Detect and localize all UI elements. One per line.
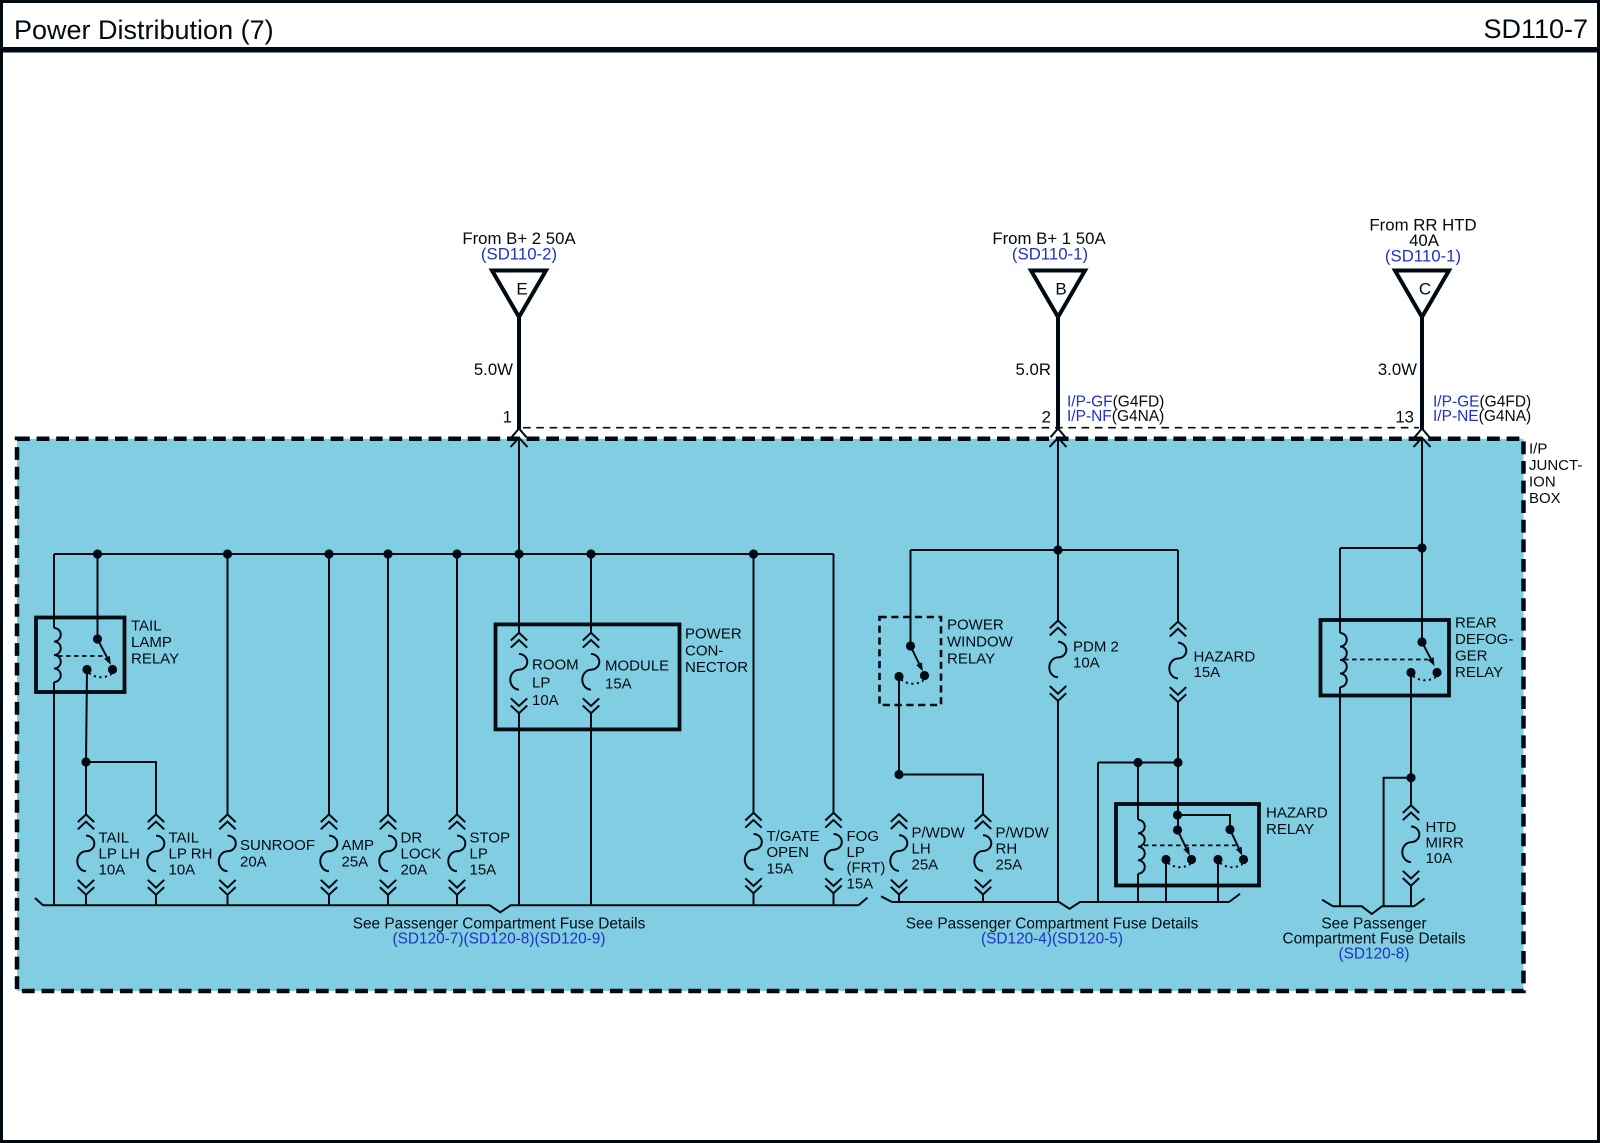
svg-text:(SD110-1): (SD110-1) <box>1012 245 1088 264</box>
svg-text:10A: 10A <box>99 862 126 879</box>
fuse TAIL LP RH 10A <box>147 814 164 894</box>
svg-text:TAIL: TAIL <box>169 830 200 847</box>
svg-text:15A: 15A <box>1194 664 1221 681</box>
wire DR LOCK drop <box>387 554 389 814</box>
svg-text:15A: 15A <box>605 675 632 692</box>
wire FOG LP to bus <box>833 893 835 905</box>
label POWER CONNECTOR <box>685 626 748 677</box>
connector pin symbol E/1 <box>511 429 528 448</box>
wire ROOM LP to bus <box>518 713 520 905</box>
value label AMP 25A <box>342 837 375 871</box>
wire hazard sw2 contact to bus <box>1217 860 1219 903</box>
tail lamp relay mechanical link <box>58 655 104 657</box>
wire HAZARD fuse drop <box>1177 550 1179 622</box>
svg-text:SUNROOF: SUNROOF <box>240 837 315 854</box>
wire right bus end tick R <box>1414 899 1425 907</box>
svg-text:LP: LP <box>470 846 488 863</box>
svg-text:LP: LP <box>532 674 550 691</box>
relay label TAIL LAMP RELAY <box>131 618 179 668</box>
svg-text:LAMP: LAMP <box>131 634 172 651</box>
svg-text:RELAY: RELAY <box>131 651 179 668</box>
fuse PDM 2 10A <box>1049 621 1066 701</box>
svg-text:20A: 20A <box>240 854 267 871</box>
svg-text:I/P: I/P <box>1529 441 1547 458</box>
svg-text:MIRR: MIRR <box>1426 835 1464 852</box>
fuse HTD MIRR 10A <box>1402 805 1419 885</box>
svg-text:(SD120-8): (SD120-8) <box>1339 946 1410 963</box>
wire mid bottom bus <box>892 902 1229 909</box>
wire DR LOCK to bus <box>387 895 389 906</box>
wire ROOM LP drop <box>518 554 520 633</box>
svg-text:ION: ION <box>1529 474 1556 491</box>
svg-text:DR: DR <box>401 830 423 847</box>
rear defogger relay coil <box>1340 633 1347 687</box>
wire mid top bus <box>911 549 1179 551</box>
connector box POWER CONNECTOR <box>496 624 680 729</box>
wire HTD MIRR to bus <box>1410 886 1412 907</box>
svg-text:OPEN: OPEN <box>767 844 810 861</box>
svg-text:PDM 2: PDM 2 <box>1073 639 1119 656</box>
svg-text:RELAY: RELAY <box>1266 821 1314 838</box>
wire P/WDW LH to bus <box>898 895 900 903</box>
svg-text:I/P-NE(G4NA): I/P-NE(G4NA) <box>1433 408 1531 425</box>
svg-text:REAR: REAR <box>1455 615 1497 632</box>
svg-text:RELAY: RELAY <box>1455 664 1503 681</box>
svg-text:DEFOG-: DEFOG- <box>1455 631 1513 648</box>
wire hazard sw1 feed <box>1177 763 1179 831</box>
relay box HAZARD RELAY <box>1116 804 1259 886</box>
svg-text:15A: 15A <box>847 876 874 893</box>
fuse TAIL LP LH 10A <box>77 814 94 894</box>
value label STOP LP 15A <box>470 830 511 879</box>
wire STOP LP drop <box>456 554 458 814</box>
connector pin symbol B/2 <box>1050 429 1067 448</box>
value label HAZARD 15A <box>1194 649 1256 682</box>
wire tail relay switch feed <box>97 554 99 639</box>
wire PDM2 to bus <box>1057 701 1059 902</box>
svg-text:B: B <box>1055 280 1066 299</box>
value label TAIL LP LH 10A <box>99 830 140 879</box>
wire 5.0W from triangle E <box>517 316 521 429</box>
node bus dots left <box>93 549 102 558</box>
wire defogger coil to bus <box>1339 687 1341 906</box>
wire right link bar <box>1340 547 1422 549</box>
svg-text:POWER: POWER <box>947 617 1004 634</box>
svg-text:10A: 10A <box>532 692 559 709</box>
wire AMP drop <box>328 554 330 814</box>
wire 5.0R from triangle B <box>1056 316 1060 429</box>
wire B entry to mid bus <box>1057 438 1059 550</box>
connector triangle C <box>1395 271 1449 318</box>
wire PDM2 drop <box>1057 550 1059 621</box>
svg-text:T/GATE: T/GATE <box>767 828 820 845</box>
wire TAIL LP RH to bus <box>155 895 157 906</box>
svg-text:E: E <box>516 280 527 299</box>
wire pw relay contact down <box>898 677 900 775</box>
svg-text:13: 13 <box>1395 408 1414 427</box>
value label T/GATE OPEN 15A <box>767 828 820 877</box>
svg-text:RELAY: RELAY <box>947 651 995 668</box>
tail lamp relay switch <box>98 639 108 657</box>
wire left bus end tick L <box>35 898 43 905</box>
wire MODULE drop <box>590 554 592 633</box>
hazard relay coil <box>1138 820 1145 874</box>
wire right bottom bus <box>1333 906 1414 914</box>
wire left bus end tick R <box>859 898 868 906</box>
svg-text:C: C <box>1419 280 1431 299</box>
svg-text:10A: 10A <box>1073 655 1100 672</box>
wire branch to P/WDW RH <box>899 775 983 815</box>
svg-text:JUNCT-: JUNCT- <box>1529 457 1582 474</box>
svg-text:FOG: FOG <box>847 828 880 845</box>
svg-text:25A: 25A <box>996 857 1023 874</box>
svg-text:MODULE: MODULE <box>605 658 669 675</box>
svg-text:TAIL: TAIL <box>99 830 130 847</box>
svg-text:(FRT): (FRT) <box>847 860 886 877</box>
wire P/WDW RH to bus <box>982 895 984 903</box>
hazard relay switch 1 <box>1178 830 1187 848</box>
value label MODULE 15A <box>605 658 669 693</box>
hazard relay switch 2 <box>1230 830 1239 849</box>
wire hazard coil to bus <box>1137 874 1139 902</box>
value label TAIL LP RH 10A <box>169 830 213 879</box>
wire mid link to bus <box>1097 763 1099 903</box>
node tail lamp feed <box>81 757 90 766</box>
connector triangle E <box>492 271 546 318</box>
relay box TAIL LAMP RELAY <box>36 618 125 693</box>
wire TAIL LP LH to bus <box>85 895 87 906</box>
wire SUNROOF to bus <box>227 895 229 906</box>
relay box POWER WINDOW RELAY (dashed) <box>880 617 942 705</box>
fuse P/WDW LH 25A <box>890 814 907 894</box>
wire hazard coil feed <box>1137 763 1139 820</box>
svg-text:CON-: CON- <box>685 642 723 659</box>
svg-text:GER: GER <box>1455 648 1488 665</box>
svg-text:20A: 20A <box>401 862 428 879</box>
wire left bottom bus <box>43 905 859 912</box>
node htd mirr feed <box>1406 773 1415 782</box>
wire hazard sw1 contact to bus <box>1165 860 1167 903</box>
value label PDM 2 10A <box>1073 639 1119 672</box>
wire mid bus end tick L <box>881 896 892 902</box>
value label FOG LP (FRT) 15A <box>847 828 886 893</box>
fuse DR LOCK 20A <box>379 814 396 894</box>
svg-text:15A: 15A <box>470 862 497 879</box>
wire branch to TAIL LP RH <box>86 762 156 814</box>
wire E entry to left bus <box>518 438 520 554</box>
wire tail relay contact down <box>86 670 87 815</box>
wire mid bus end tick R <box>1229 894 1240 902</box>
relay label HAZARD RELAY <box>1266 805 1328 839</box>
wire mid link bar <box>1098 762 1178 764</box>
fuse HAZARD 15A <box>1169 622 1186 702</box>
value label SUNROOF 20A <box>240 837 315 871</box>
wire MODULE to bus <box>590 713 592 905</box>
wire AMP to bus <box>328 895 330 906</box>
relay label REAR DEFOGGER RELAY <box>1455 615 1513 682</box>
wire defogger switch feed <box>1421 548 1423 642</box>
svg-text:LP RH: LP RH <box>169 846 213 863</box>
relay label POWER WINDOW RELAY <box>947 617 1014 668</box>
fuse STOP LP 15A <box>448 814 465 894</box>
node mid distribution <box>1053 545 1062 554</box>
value label HTD MIRR 10A <box>1426 819 1464 867</box>
svg-text:P/WDW: P/WDW <box>996 825 1050 842</box>
svg-text:1: 1 <box>503 408 512 427</box>
wire coil feed left <box>53 554 55 628</box>
svg-text:ROOM: ROOM <box>532 657 579 674</box>
svg-text:HAZARD: HAZARD <box>1194 649 1256 666</box>
svg-text:BOX: BOX <box>1529 490 1561 507</box>
relay box REAR DEFOGGER RELAY <box>1321 620 1450 696</box>
svg-text:5.0R: 5.0R <box>1016 360 1051 379</box>
svg-text:25A: 25A <box>342 854 369 871</box>
svg-text:10A: 10A <box>169 862 196 879</box>
svg-text:Power Distribution (7): Power Distribution (7) <box>14 15 274 45</box>
value label P/WDW LH 25A <box>912 825 966 874</box>
svg-text:HAZARD: HAZARD <box>1266 805 1328 822</box>
value label DR LOCK 20A <box>401 830 442 879</box>
fuse MODULE 15A <box>582 633 599 713</box>
svg-text:HTD: HTD <box>1426 819 1457 836</box>
wire defogger contact down <box>1410 673 1412 778</box>
svg-text:15A: 15A <box>767 860 794 877</box>
svg-text:10A: 10A <box>1426 850 1453 867</box>
wire HAZARD fuse to node <box>1177 702 1179 763</box>
wire C entry drop <box>1421 438 1423 548</box>
rear defogger relay switch <box>1422 642 1431 659</box>
fuse P/WDW RH 25A <box>974 814 991 894</box>
power window relay switch <box>911 646 920 664</box>
fuse FOG LP (FRT) 15A <box>825 813 842 893</box>
wire HTD MIRR drop <box>1410 778 1412 806</box>
rear defogger relay mechanical link <box>1344 659 1428 661</box>
value label P/WDW RH 25A <box>996 825 1050 874</box>
wire hazard sw2 bridge <box>1178 815 1231 830</box>
svg-text:NECTOR: NECTOR <box>685 659 748 676</box>
dashed interconnect line at box top <box>523 427 1419 429</box>
wire tail relay coil to bottom bus <box>53 682 55 905</box>
fuse SUNROOF 20A <box>219 814 236 894</box>
wire STOP LP to bus <box>456 895 458 906</box>
svg-text:AMP: AMP <box>342 837 375 854</box>
svg-text:TAIL: TAIL <box>131 618 162 635</box>
svg-text:LH: LH <box>912 841 931 858</box>
node right distribution <box>1417 543 1426 552</box>
wire SUNROOF drop <box>227 554 229 814</box>
connector triangle B <box>1031 271 1085 318</box>
svg-text:POWER: POWER <box>685 626 742 643</box>
tail lamp relay coil <box>54 628 61 682</box>
header rule <box>0 47 1600 53</box>
connector pin symbol C/13 <box>1414 429 1431 448</box>
svg-text:STOP: STOP <box>470 830 511 847</box>
wire FOG LP drop <box>833 554 835 813</box>
node p/wdw feed <box>894 770 903 779</box>
wire branch to bus (right) <box>1384 778 1411 907</box>
svg-text:WINDOW: WINDOW <box>947 634 1014 651</box>
wire left top bus <box>54 553 834 555</box>
wire right bus end tick L <box>1322 900 1333 907</box>
hazard relay mechanical link <box>1144 844 1236 846</box>
svg-text:(SD110-2): (SD110-2) <box>481 245 557 264</box>
svg-text:2: 2 <box>1042 408 1051 427</box>
svg-text:LOCK: LOCK <box>401 846 442 863</box>
svg-text:(SD120-4)(SD120-5): (SD120-4)(SD120-5) <box>981 931 1123 948</box>
fuse ROOM LP 10A <box>510 633 527 713</box>
fuse T/GATE OPEN 15A <box>745 813 762 893</box>
wire pwr window relay feed <box>910 550 912 646</box>
I/P junction box (dashed) <box>17 439 1524 991</box>
wire 3.0W from triangle C <box>1420 316 1424 429</box>
fuse AMP 25A <box>320 814 337 894</box>
wire T/GATE drop <box>753 554 755 813</box>
wire T/GATE to bus <box>753 893 755 905</box>
value label ROOM LP 10A <box>532 657 579 710</box>
svg-text:I/P-NF(G4NA): I/P-NF(G4NA) <box>1067 408 1164 425</box>
svg-text:P/WDW: P/WDW <box>912 825 966 842</box>
svg-text:LP LH: LP LH <box>99 846 140 863</box>
svg-text:25A: 25A <box>912 857 939 874</box>
svg-text:3.0W: 3.0W <box>1378 360 1417 379</box>
I/P junction box label <box>1529 441 1582 508</box>
svg-text:RH: RH <box>996 841 1018 858</box>
wire defogger coil feed <box>1339 548 1341 633</box>
svg-text:5.0W: 5.0W <box>474 360 513 379</box>
svg-text:(SD110-1): (SD110-1) <box>1385 247 1461 266</box>
svg-text:SD110-7: SD110-7 <box>1483 14 1588 44</box>
svg-text:(SD120-7)(SD120-8)(SD120-9): (SD120-7)(SD120-8)(SD120-9) <box>393 931 606 948</box>
